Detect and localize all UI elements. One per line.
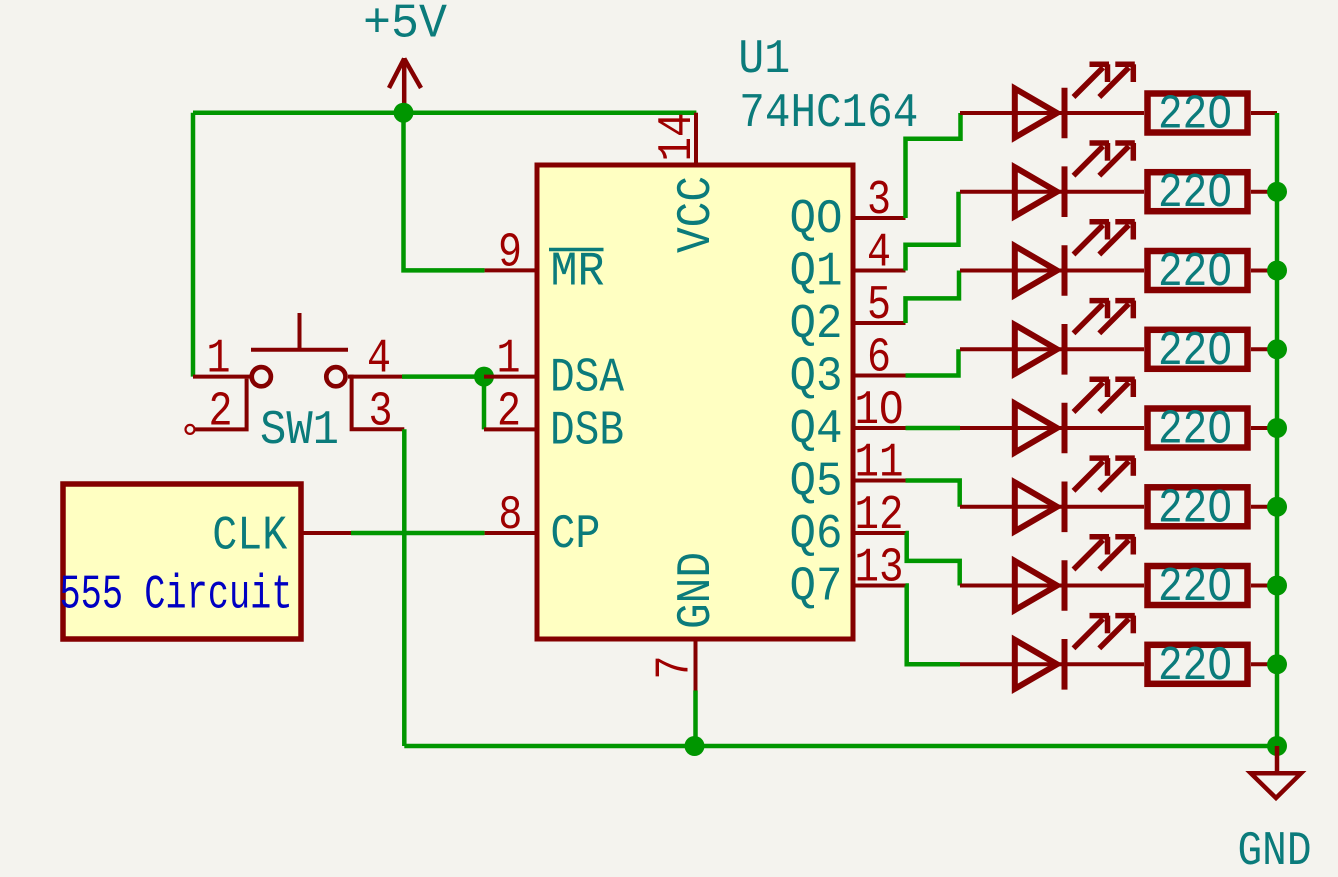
- U1 pin 8 CP: [485, 489, 601, 562]
- junction rail row 7: [1267, 576, 1287, 596]
- resistor R8 220: [1148, 640, 1278, 694]
- svg-text:QO: QO: [790, 193, 843, 247]
- U1 pin 9 MR: [485, 226, 605, 299]
- junction +5V rail: [394, 103, 414, 123]
- U1 pin 6 Q3: [790, 332, 906, 405]
- junction rail row 6: [1267, 497, 1287, 517]
- wire LED cathode rail: [1275, 113, 1280, 746]
- LED D2: [960, 143, 1144, 217]
- LED D4: [960, 301, 1144, 375]
- svg-text:Q4: Q4: [790, 403, 843, 457]
- svg-text:2: 2: [497, 385, 521, 439]
- LED D3: [960, 222, 1144, 296]
- svg-text:7: 7: [649, 656, 703, 680]
- junction ground rail right end: [1267, 736, 1287, 756]
- wire Q5 to LED D6: [906, 481, 960, 507]
- switch SW1: [186, 313, 405, 458]
- svg-text:3: 3: [369, 385, 393, 439]
- block 555 circuit: [60, 484, 352, 639]
- svg-text:74HC164: 74HC164: [739, 87, 918, 141]
- svg-text:Q6: Q6: [790, 508, 843, 562]
- svg-text:DSB: DSB: [550, 404, 624, 458]
- svg-text:+5V: +5V: [363, 0, 447, 52]
- svg-text:3: 3: [867, 174, 891, 228]
- LED D5: [960, 379, 1144, 453]
- U1 pin 1 DSA: [484, 333, 624, 406]
- SW1 pin 1: [193, 375, 250, 379]
- power symbol +5V: [363, 0, 447, 113]
- U1 pin 2 DSB: [484, 385, 624, 458]
- junction rail row 8: [1267, 654, 1287, 674]
- power symbol GND: [1238, 746, 1312, 877]
- junction ground rail at U1 GND: [685, 736, 705, 756]
- svg-text:VCC: VCC: [670, 176, 724, 253]
- svg-text:22O: 22O: [1158, 561, 1232, 615]
- svg-text:Q7: Q7: [790, 561, 843, 615]
- svg-text:1: 1: [207, 333, 231, 387]
- SW1 pin 2: [194, 379, 247, 430]
- svg-text:CP: CP: [550, 508, 600, 562]
- wire Q2 to LED D3: [906, 271, 960, 324]
- resistor R3 220: [1148, 246, 1278, 300]
- svg-text:12: 12: [855, 489, 904, 543]
- U1 pin 12 Q6: [790, 489, 906, 562]
- 555 block CLK output pin: [301, 531, 351, 535]
- SW1 contact circles and actuator: [252, 367, 271, 386]
- svg-text:5: 5: [867, 279, 891, 333]
- svg-text:Q5: Q5: [790, 456, 843, 510]
- wire SW1 pin 3 down to ground rail: [402, 429, 407, 746]
- U1 pin 3 Q0: [790, 174, 906, 247]
- svg-text:GND: GND: [670, 552, 724, 629]
- svg-text:6: 6: [867, 332, 891, 386]
- wire ground rail: [404, 744, 1277, 749]
- wire Q6 to LED D7: [906, 533, 960, 586]
- svg-text:13: 13: [855, 542, 904, 596]
- svg-text:CLK: CLK: [212, 510, 287, 564]
- resistor R6 220: [1148, 482, 1278, 536]
- U1 pin 1O Q4: [790, 384, 906, 457]
- svg-text:22O: 22O: [1158, 482, 1232, 536]
- svg-text:U1: U1: [738, 33, 790, 87]
- svg-text:22O: 22O: [1158, 246, 1232, 300]
- svg-text:1O: 1O: [855, 384, 904, 438]
- svg-text:22O: 22O: [1158, 167, 1232, 221]
- svg-text:Q2: Q2: [790, 298, 843, 352]
- svg-text:SW1: SW1: [260, 404, 339, 458]
- U1 pin 5 Q2: [790, 279, 906, 352]
- svg-text:22O: 22O: [1158, 89, 1232, 143]
- svg-text:4: 4: [867, 227, 891, 281]
- wire +5V junction to MR pin: [404, 113, 485, 271]
- svg-text:9: 9: [498, 226, 522, 280]
- SW1 pin 3: [352, 375, 405, 430]
- wire +5V top rail: [193, 110, 696, 115]
- svg-text:22O: 22O: [1158, 640, 1232, 694]
- op IC U1 74HC164 body: [537, 33, 918, 639]
- svg-text:555 Circuit: 555 Circuit: [60, 569, 293, 623]
- svg-text:11: 11: [855, 437, 904, 491]
- U1 pin 13 Q7: [790, 542, 906, 615]
- LED D1: [960, 64, 1144, 138]
- svg-text:GND: GND: [1238, 825, 1312, 872]
- junction DSA: [474, 367, 494, 387]
- svg-text:22O: 22O: [1158, 404, 1232, 458]
- wire DSA junction to DSB pin: [482, 377, 487, 430]
- wire Q3 to LED D4: [906, 349, 959, 375]
- svg-text:22O: 22O: [1158, 325, 1232, 379]
- wire GND pin 7 drop: [693, 691, 698, 747]
- resistor R7 220: [1148, 561, 1278, 615]
- svg-text:DSA: DSA: [550, 352, 624, 406]
- wire Q7 to LED D8: [906, 586, 961, 665]
- svg-text:4: 4: [367, 333, 391, 387]
- LED D7: [960, 537, 1144, 611]
- junction rail row 5: [1267, 418, 1287, 438]
- U1 pin 4 Q1: [790, 227, 906, 300]
- wire Q1 to LED D2: [906, 192, 959, 271]
- LED D6: [960, 458, 1144, 532]
- LED D8: [960, 616, 1144, 690]
- wire SW1 pin 4 to DSA junction: [402, 374, 484, 379]
- U1 pin 14 VCC: [651, 113, 724, 254]
- wire left drop to SW1 pin 1: [191, 113, 196, 377]
- svg-text:Q3: Q3: [790, 351, 843, 405]
- junction rail row 2: [1267, 182, 1287, 202]
- wire CLK to CP pin: [351, 531, 485, 536]
- junction rail row 4: [1267, 339, 1287, 359]
- svg-text:MR: MR: [551, 246, 605, 300]
- resistor R5 220: [1148, 404, 1278, 458]
- SW1 pin 4: [348, 375, 402, 379]
- wire Q0 to LED D1: [906, 113, 961, 218]
- U1 pin 7 GND: [649, 552, 725, 691]
- svg-text:8: 8: [498, 489, 522, 543]
- svg-text:2: 2: [209, 385, 233, 439]
- resistor R4 220: [1148, 325, 1278, 379]
- svg-text:Q1: Q1: [790, 246, 843, 300]
- svg-text:1: 1: [497, 333, 521, 387]
- wire Q4 to LED D5: [906, 426, 961, 431]
- U1 pin 11 Q5: [790, 437, 906, 510]
- resistor R2 220: [1148, 167, 1278, 221]
- svg-text:14: 14: [651, 113, 705, 162]
- junction rail row 3: [1267, 261, 1287, 281]
- resistor R1 220: [1148, 89, 1278, 143]
